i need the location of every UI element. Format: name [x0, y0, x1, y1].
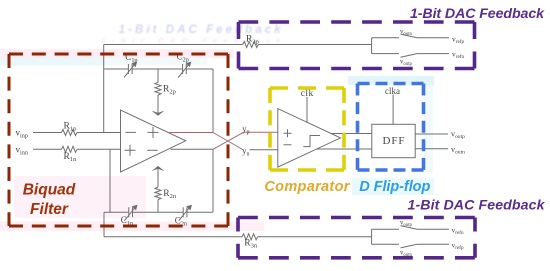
- resistor R1n: [62, 146, 78, 152]
- wire bottom DAC rail: [104, 236, 372, 238]
- wire vinp: [33, 132, 121, 134]
- svg-text:D Flip-flop: D Flip-flop: [359, 179, 430, 195]
- op-amp U1 input plus marker: [125, 145, 136, 156]
- wire op-amp out bottom rail: [170, 148, 213, 150]
- op-amp U1 output plus marker: [148, 127, 159, 138]
- wire bottom box top stub: [372, 228, 399, 230]
- wire to vrefp: [417, 37, 449, 39]
- wire yp to comparator: [244, 131, 278, 133]
- wire comparator out bottom: [317, 148, 372, 150]
- arrow R2n up: [152, 166, 165, 171]
- arrowhead C2p: [186, 62, 192, 68]
- wire bottom box bottom stub: [372, 243, 399, 245]
- switch S2 arm: [401, 54, 418, 58]
- artifact cyan band blue box top: [348, 76, 434, 85]
- wire to vrefp bottom: [417, 243, 449, 245]
- wire op-amp out top rail: [169, 132, 213, 134]
- switch S4 arm: [401, 244, 418, 248]
- resistor R2p: [155, 82, 161, 95]
- resistor R2n: [155, 187, 161, 200]
- wire voutn: [415, 148, 448, 150]
- comparator U2 minus marker: [284, 144, 292, 146]
- flipflop U3 box: [372, 124, 415, 157]
- arrowhead C2n: [186, 205, 192, 211]
- wire X crossing diag 2: [213, 132, 244, 149]
- wire voutp: [415, 133, 448, 135]
- artifact cyan halo flipflop label: [352, 178, 434, 195]
- svg-text:clka: clka: [385, 86, 400, 96]
- capacitor C2n: [179, 207, 190, 221]
- DAC top dashed border: [239, 22, 475, 69]
- wire to vrefn bottom: [417, 228, 449, 230]
- wire vinn: [33, 148, 121, 150]
- artifact pink band bottom: [0, 222, 264, 232]
- arrowhead C1n: [132, 205, 138, 211]
- wire clka: [392, 95, 394, 125]
- op-amp U1 output minus marker: [147, 149, 158, 151]
- wire R2p branch: [157, 69, 159, 114]
- wire top DAC rail: [104, 44, 372, 46]
- svg-text:DFF: DFF: [383, 135, 406, 147]
- wire right vertical top feedback: [212, 69, 214, 133]
- svg-text:Filter: Filter: [30, 201, 69, 218]
- svg-text:Biquad: Biquad: [23, 182, 76, 199]
- wire to vrefn: [417, 53, 449, 55]
- comparator U2 step symbol: [303, 136, 320, 147]
- artifact pink band top: [0, 49, 234, 58]
- comparator U2 body: [278, 109, 341, 168]
- resistor R3n: [242, 234, 258, 240]
- node tee bottom DAC: [371, 229, 373, 244]
- svg-text:clk: clk: [301, 89, 314, 99]
- comparator dashed border: [270, 88, 344, 170]
- capacitor C1p: [124, 63, 135, 77]
- switch S1 arm: [401, 34, 418, 38]
- DAC bottom dashed border: [238, 218, 475, 258]
- wire top cap row: [104, 68, 213, 70]
- wire top branch stub: [372, 37, 399, 39]
- resistor R3p: [243, 42, 259, 48]
- capacitor C2p: [178, 63, 189, 77]
- wire bottom cap row: [104, 211, 213, 213]
- wire clk: [306, 97, 308, 123]
- wire bottom left vertical: [103, 212, 105, 237]
- wire X crossing diag 1: [213, 133, 244, 151]
- wire bottom branch stub: [372, 53, 399, 55]
- svg-text:1-Bit DAC Feedback: 1-Bit DAC Feedback: [119, 24, 282, 36]
- resistor R1p: [62, 130, 78, 136]
- svg-text:Comparator: Comparator: [264, 179, 350, 195]
- op-amp U1 body: [121, 110, 186, 172]
- arrow R2p down: [152, 111, 165, 116]
- flipflop dashed border: [358, 84, 424, 171]
- capacitor C1n: [124, 207, 135, 221]
- artifact cyan right of blue box: [424, 84, 433, 172]
- op-amp U1 input minus marker: [126, 131, 137, 133]
- arrowhead C1p: [131, 62, 137, 68]
- artifact cyan band under top dashes: [0, 58, 105, 66]
- svg-text:1-Bit DAC Feedback: 1-Bit DAC Feedback: [408, 198, 546, 214]
- wire yn to comparator: [250, 149, 278, 151]
- wire node N vertical: [109, 149, 111, 212]
- wire comparator out top: [331, 133, 372, 135]
- biquad filter dashed border: [9, 54, 228, 226]
- wire left vertical node P: [103, 45, 105, 133]
- switch S3 arm: [401, 226, 418, 230]
- artifact pink halo biquad label: [14, 176, 146, 218]
- comparator U2 plus marker: [284, 129, 292, 137]
- wire R2n branch: [157, 169, 159, 213]
- svg-text:1-Bit DAC Feedback: 1-Bit DAC Feedback: [410, 6, 545, 22]
- node tee top DAC: [371, 38, 373, 54]
- wire right vertical bottom feedback: [212, 149, 214, 212]
